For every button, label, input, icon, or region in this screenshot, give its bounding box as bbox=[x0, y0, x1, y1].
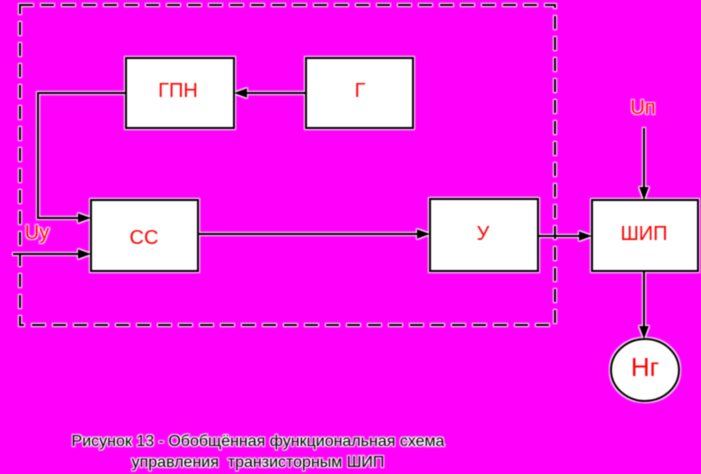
svg-text:управления транзисторным ШИП: управления транзисторным ШИП bbox=[132, 454, 385, 471]
svg-text:Г: Г bbox=[355, 80, 366, 102]
svg-text:СС: СС bbox=[130, 227, 159, 249]
svg-text:Рисунок 13 - Обобщённая функци: Рисунок 13 - Обобщённая функциональная с… bbox=[72, 433, 445, 450]
svg-text:Uп: Uп bbox=[630, 97, 655, 119]
svg-text:Нг: Нг bbox=[631, 352, 659, 382]
svg-text:ГПН: ГПН bbox=[158, 80, 198, 102]
svg-text:У: У bbox=[477, 223, 490, 245]
svg-text:Uу: Uу bbox=[25, 222, 49, 244]
svg-text:ШИП: ШИП bbox=[620, 223, 667, 245]
